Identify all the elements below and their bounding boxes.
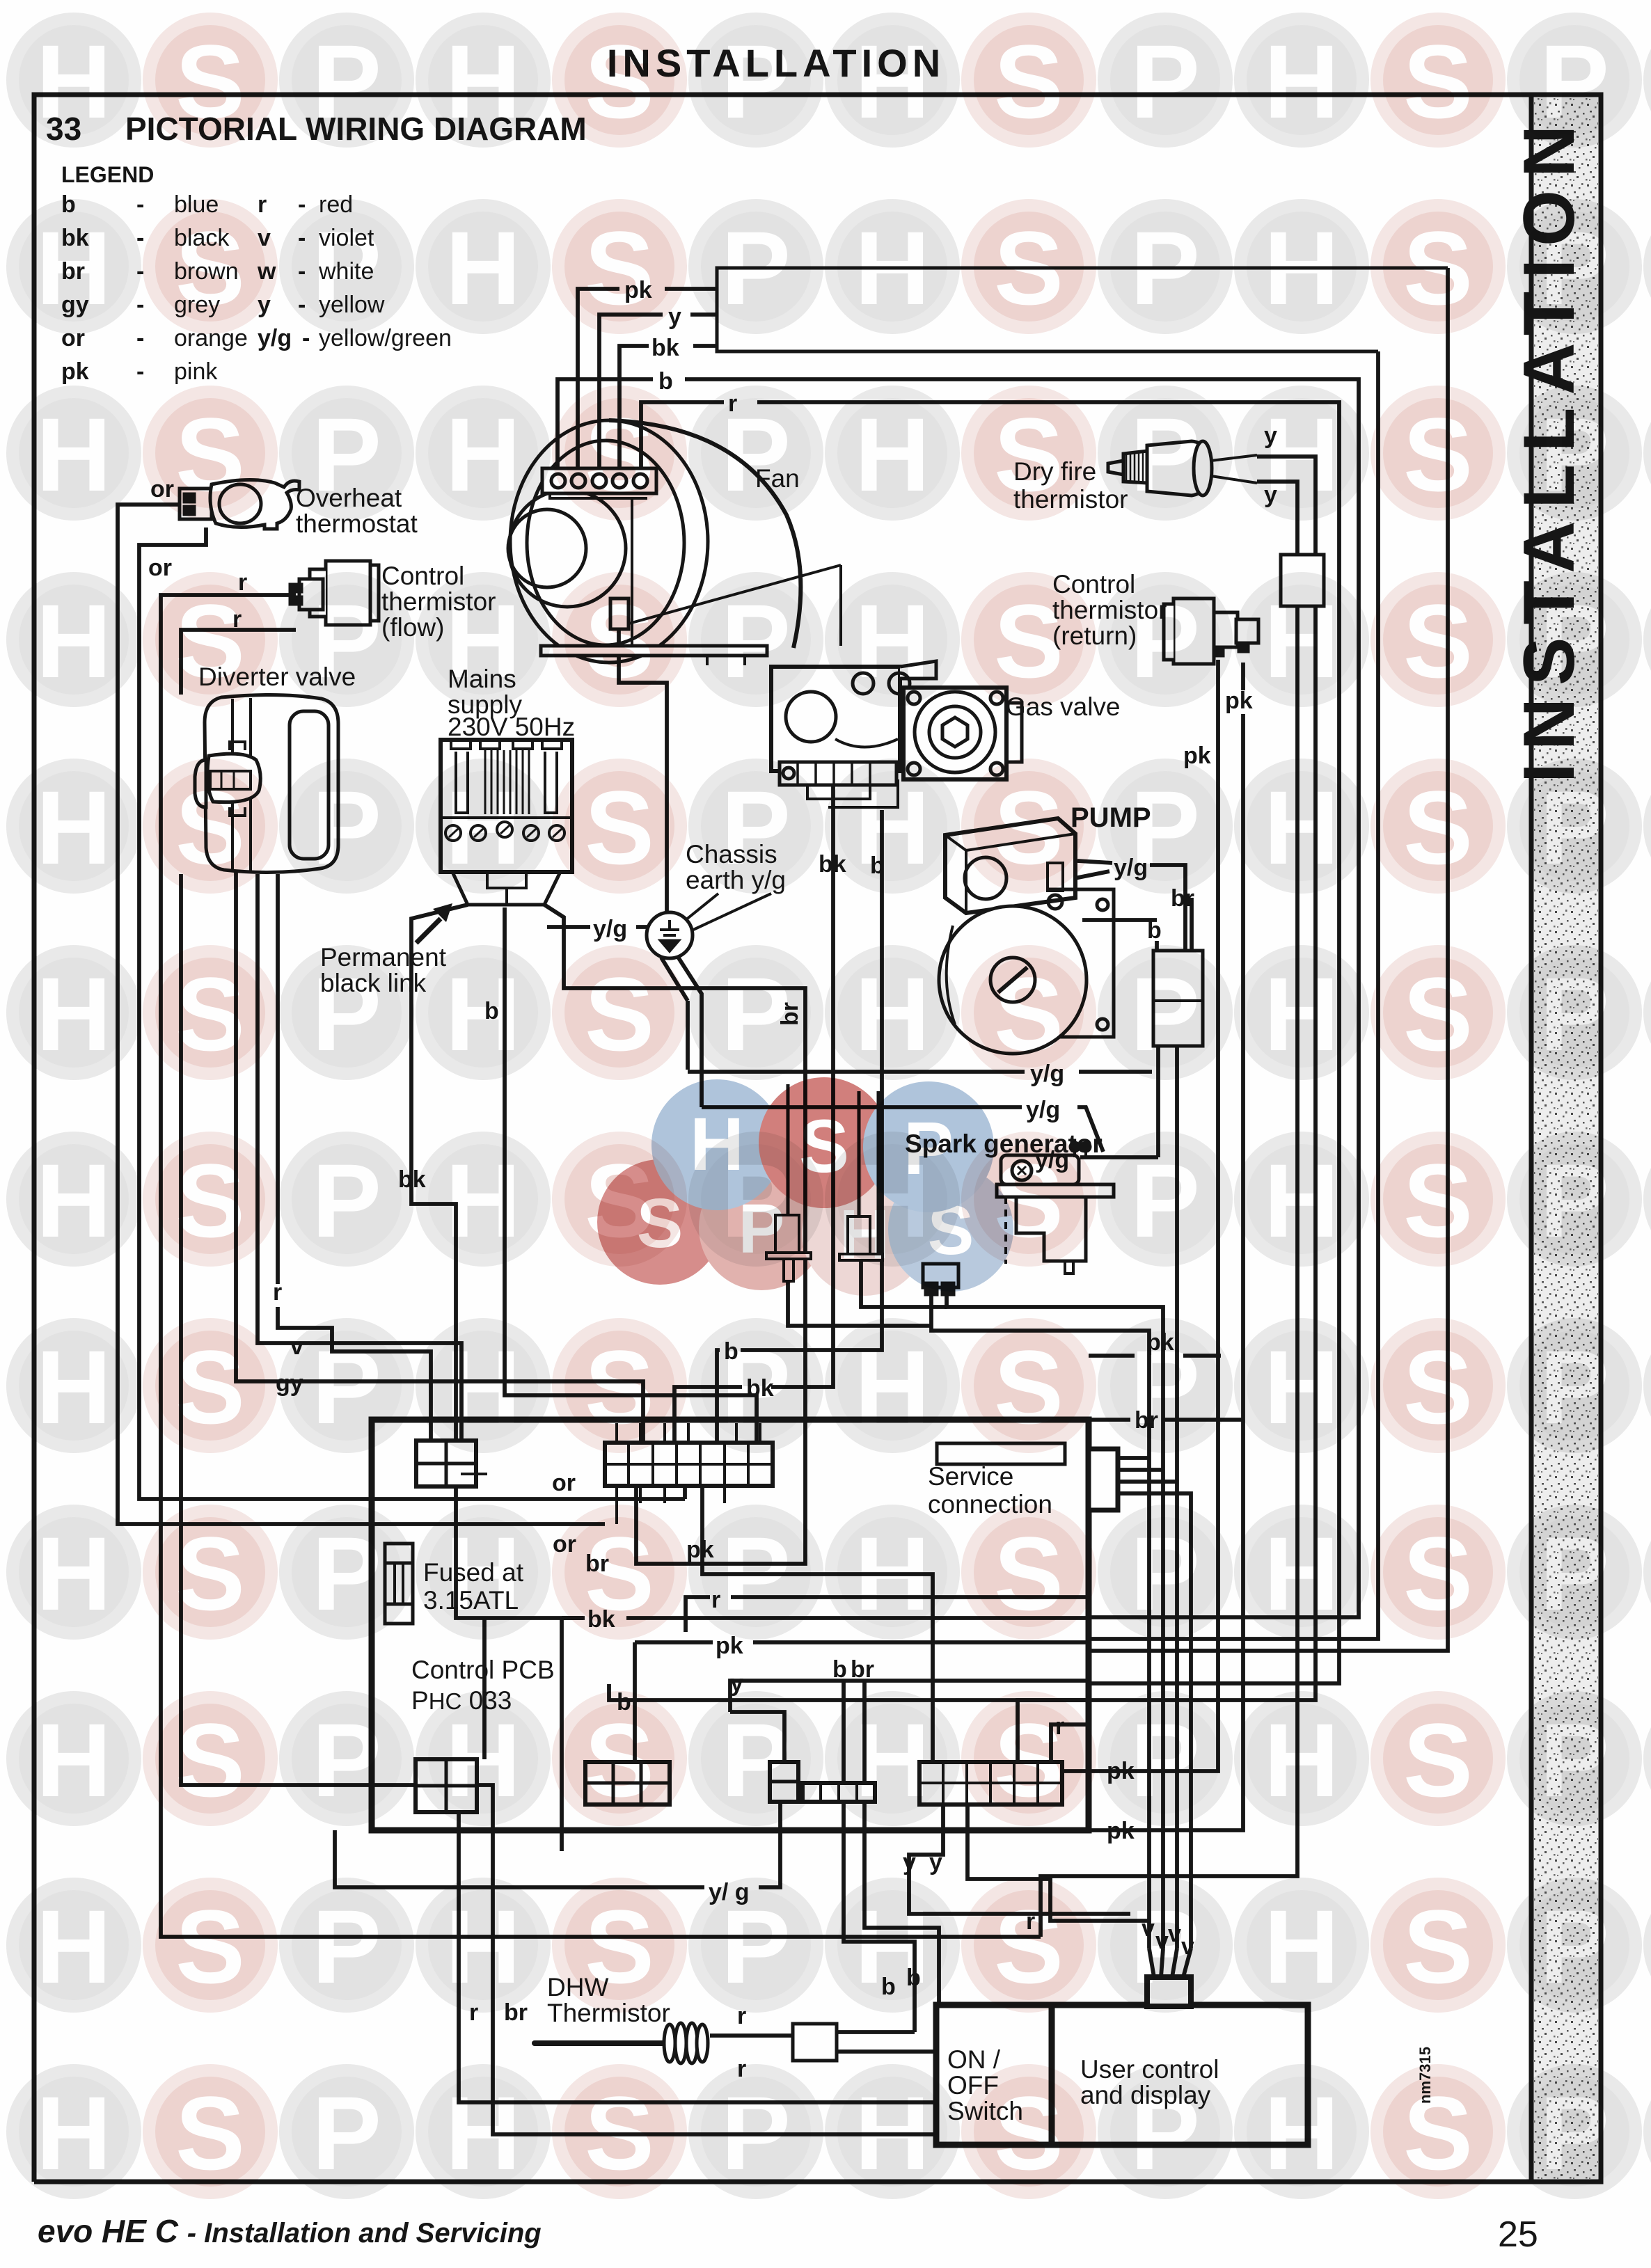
svg-text:S: S xyxy=(994,1515,1064,1632)
pump xyxy=(939,818,1114,1054)
diverter valve xyxy=(195,695,338,872)
svg-text:H: H xyxy=(855,23,930,140)
svg-text:H: H xyxy=(36,1515,111,1632)
wire or overheat 2 xyxy=(139,528,685,1499)
wire v connector down long xyxy=(1175,1046,1179,1949)
svg-text:br: br xyxy=(851,1656,874,1683)
svg-text:S: S xyxy=(994,1888,1064,2005)
svg-text:P: P xyxy=(1540,1702,1609,1818)
svg-text:S: S xyxy=(1403,23,1473,140)
svg-text:H: H xyxy=(855,1329,930,1445)
svg-text:H: H xyxy=(855,769,930,886)
control thermistor (flow) xyxy=(290,561,379,625)
svg-text:S: S xyxy=(1403,769,1473,886)
svg-text:S: S xyxy=(994,1329,1064,1445)
svg-text:25: 25 xyxy=(1498,2214,1538,2255)
svg-text:P: P xyxy=(1130,1142,1200,1259)
svg-text:P: P xyxy=(721,209,791,326)
svg-text:H: H xyxy=(855,209,930,326)
svg-text:H: H xyxy=(855,396,930,513)
svg-text:H: H xyxy=(855,1515,930,1632)
wire y/g horizontal 3 xyxy=(1018,1155,1158,1159)
svg-text:H: H xyxy=(855,1888,930,2005)
svg-text:H: H xyxy=(36,23,111,140)
wire bus bottom right vertical xyxy=(1089,351,1378,1639)
fuse xyxy=(385,1544,413,1624)
sidebar INSTALLATION strip xyxy=(1531,95,1601,2182)
gas valve xyxy=(771,661,1022,807)
svg-text:S: S xyxy=(1403,209,1473,326)
wire terminal bus box xyxy=(717,268,1448,351)
wire y/g horizontal 1 xyxy=(688,1070,1152,1074)
svg-text:S: S xyxy=(585,396,654,513)
svg-text:S: S xyxy=(994,2075,1064,2191)
wire electrode 1 wire xyxy=(788,1281,931,1326)
svg-text:H: H xyxy=(36,582,111,699)
svg-text:b: b xyxy=(658,368,673,395)
wire service pins to v bundle xyxy=(1118,1458,1191,1949)
svg-text:P: P xyxy=(312,582,381,699)
connector M2 xyxy=(770,1762,798,1802)
wire v bundle into connector xyxy=(1149,1949,1191,1977)
svg-text:r: r xyxy=(273,1279,282,1306)
svg-text:S: S xyxy=(175,582,245,699)
svg-text:P: P xyxy=(1130,2075,1200,2191)
svg-text:P: P xyxy=(1130,23,1200,140)
svg-text:pk: pk xyxy=(1107,1818,1135,1844)
svg-text:S: S xyxy=(799,1104,849,1188)
svg-text:y: y xyxy=(903,1849,916,1876)
svg-text:P: P xyxy=(1130,1888,1200,2005)
svg-text:P: P xyxy=(721,1329,791,1445)
svg-text:H: H xyxy=(1264,396,1339,513)
svg-text:H: H xyxy=(1264,1329,1339,1445)
svg-text:S: S xyxy=(585,2075,654,2191)
wire br left bottom xyxy=(181,874,936,2134)
service connection xyxy=(937,1443,1065,1464)
svg-text:S: S xyxy=(175,2075,245,2191)
wire v diverter xyxy=(258,874,461,1441)
svg-text:-: - xyxy=(136,358,144,385)
wire b pump xyxy=(1082,920,1157,951)
svg-text:H: H xyxy=(36,2075,111,2191)
wire spark wire right 2 xyxy=(947,1296,1163,1949)
wire y dry fire upper xyxy=(1018,457,1316,1762)
mains supply block xyxy=(441,740,572,905)
wire r diverter xyxy=(278,874,431,1441)
svg-text:b: b xyxy=(832,1656,847,1683)
svg-text:P: P xyxy=(312,769,381,886)
wire bk branch to connector xyxy=(482,1618,487,1759)
svg-text:-: - xyxy=(136,191,144,218)
svg-text:S: S xyxy=(1403,1329,1473,1445)
svg-text:P: P xyxy=(1130,769,1200,886)
svg-text:S: S xyxy=(175,1702,245,1818)
svg-text:P: P xyxy=(1540,209,1609,326)
wire pk fan to terminal box xyxy=(578,289,717,487)
svg-text:Control PCB: Control PCB xyxy=(411,1656,555,1684)
svg-text:S: S xyxy=(175,1888,245,2005)
svg-text:or: or xyxy=(148,555,172,581)
svg-text:P: P xyxy=(312,1888,381,2005)
svg-text:bk: bk xyxy=(651,335,679,361)
wire pk x2 down xyxy=(702,1486,933,1762)
svg-text:H: H xyxy=(36,955,111,1072)
wire b wires to DHW xyxy=(844,1802,939,2052)
svg-text:P: P xyxy=(721,1702,791,1818)
svg-text:y/g: y/g xyxy=(593,916,627,942)
svg-text:P: P xyxy=(312,23,381,140)
svg-text:H: H xyxy=(1264,2075,1339,2191)
svg-text:P: P xyxy=(721,582,791,699)
svg-text:P: P xyxy=(1540,1329,1609,1445)
svg-text:P: P xyxy=(721,396,791,513)
svg-text:S: S xyxy=(585,1515,654,1632)
svg-text:P: P xyxy=(1540,396,1609,513)
svg-text:P: P xyxy=(312,1702,381,1818)
svg-text:P: P xyxy=(721,955,791,1072)
svg-text:b: b xyxy=(1147,917,1162,944)
svg-text:P: P xyxy=(312,1329,381,1445)
svg-text:pk: pk xyxy=(1225,688,1253,714)
svg-text:H: H xyxy=(1264,1702,1339,1818)
wire r left bottom xyxy=(459,1812,936,2102)
svg-text:H: H xyxy=(1264,1515,1339,1632)
wire b mains xyxy=(505,907,757,1443)
svg-text:H: H xyxy=(445,582,521,699)
svg-text:H: H xyxy=(855,955,930,1072)
svg-text:H: H xyxy=(36,396,111,513)
svg-text:P: P xyxy=(1540,1142,1609,1259)
svg-text:H: H xyxy=(1264,955,1339,1072)
svg-text:S: S xyxy=(994,582,1064,699)
svg-text:S: S xyxy=(1403,1515,1473,1632)
svg-text:y/g: y/g xyxy=(258,325,292,351)
svg-text:P: P xyxy=(1130,1329,1200,1445)
svg-text:P: P xyxy=(312,1515,381,1632)
v connector on user control xyxy=(1147,1977,1191,2006)
svg-text:-: - xyxy=(302,325,310,351)
svg-text:LEGEND: LEGEND xyxy=(61,162,154,187)
wire y/g fan to chassis earth xyxy=(619,629,667,913)
svg-text:H: H xyxy=(1264,209,1339,326)
svg-text:S: S xyxy=(1403,396,1473,513)
svg-text:H: H xyxy=(1264,582,1339,699)
svg-text:H: H xyxy=(1264,1142,1339,1259)
svg-text:H: H xyxy=(1264,23,1339,140)
wire y dry fire lower xyxy=(1041,482,1297,1937)
wire br to connector xyxy=(1190,898,1194,951)
wire y pcb xyxy=(730,1681,1089,1762)
wire b fan long right xyxy=(558,379,1359,1617)
svg-text:P: P xyxy=(1130,1702,1200,1818)
svg-text:ON /: ON / xyxy=(947,2045,1001,2074)
ignition electrode 2 xyxy=(839,1091,883,1260)
connector M1 (PCB bottom-middle) xyxy=(585,1762,670,1805)
wire pk thermistor return 1 xyxy=(1062,660,1218,1771)
svg-text:H: H xyxy=(445,1329,521,1445)
wire pk thermistor return 2 xyxy=(1018,663,1243,1830)
svg-text:P: P xyxy=(312,1142,381,1259)
svg-text:S: S xyxy=(175,396,245,513)
svg-text:H: H xyxy=(445,955,521,1072)
wire r pcb xyxy=(686,1597,1089,1632)
wire pk pcb xyxy=(635,1642,1089,1762)
svg-text:S: S xyxy=(175,23,245,140)
svg-text:S: S xyxy=(175,955,245,1072)
wire r thermistor flow 2 xyxy=(181,630,296,695)
svg-text:pk: pk xyxy=(61,358,89,385)
wire y/g bottom xyxy=(335,1802,780,1887)
svg-text:H: H xyxy=(36,1329,111,1445)
svg-text:P: P xyxy=(1130,209,1200,326)
svg-text:H: H xyxy=(445,1142,521,1259)
svg-text:H: H xyxy=(445,2075,521,2191)
connector block b/br (right of pump) xyxy=(1153,951,1203,1046)
user control and display box xyxy=(1052,2005,1308,2145)
control PCB box xyxy=(372,1420,1089,1830)
svg-text:H: H xyxy=(36,1702,111,1818)
dry fire thermistor xyxy=(1108,441,1257,495)
wire r DHW upper xyxy=(710,2032,915,2036)
fan xyxy=(508,420,841,665)
svg-text:P: P xyxy=(1540,2075,1609,2191)
overheat thermostat xyxy=(180,479,299,529)
svg-text:P: P xyxy=(903,1106,954,1190)
control thermistor (return) xyxy=(1164,598,1258,664)
svg-text:S: S xyxy=(1403,1142,1473,1259)
wire r fan long right xyxy=(641,402,1339,1683)
svg-text:H: H xyxy=(445,769,521,886)
svg-text:P: P xyxy=(1540,955,1609,1072)
wire y/g pump pointer xyxy=(1075,861,1112,878)
wire y/g connector down xyxy=(1156,1046,1160,1157)
wire b br pcb pair xyxy=(844,1681,864,1783)
svg-text:H: H xyxy=(445,1888,521,2005)
wire bk fan to terminal box xyxy=(619,346,717,487)
svg-text:P: P xyxy=(1540,582,1609,699)
wire r thermistor flow 1 xyxy=(161,595,1041,1937)
colored HSP logo watermark xyxy=(597,1077,1013,1296)
svg-text:H: H xyxy=(1264,1888,1339,2005)
svg-text:r: r xyxy=(258,191,267,218)
spark generator xyxy=(923,1143,1114,1294)
wire r DHW lower xyxy=(837,2049,939,2054)
wire pk service xyxy=(1089,1354,1221,1358)
svg-text:S: S xyxy=(585,1888,654,2005)
ignition electrode 1 xyxy=(766,1084,811,1281)
wire y/g mains to earth xyxy=(547,925,647,929)
svg-text:-: - xyxy=(136,325,144,351)
svg-text:S: S xyxy=(994,769,1064,886)
svg-text:S: S xyxy=(585,955,654,1072)
svg-text:or: or xyxy=(552,1470,576,1496)
svg-text:H: H xyxy=(445,1515,521,1632)
svg-text:S: S xyxy=(637,1184,684,1262)
svg-text:P: P xyxy=(1540,23,1609,140)
wire bk mains xyxy=(411,905,1089,1618)
svg-text:H: H xyxy=(1264,769,1339,886)
chassis earth symbol xyxy=(647,912,693,958)
svg-text:P: P xyxy=(1540,1515,1609,1632)
svg-text:P: P xyxy=(1130,955,1200,1072)
svg-text:S: S xyxy=(585,1702,654,1818)
wire gy diverter xyxy=(236,808,643,1443)
svg-text:H: H xyxy=(445,209,521,326)
svg-text:P: P xyxy=(1540,769,1609,886)
wire b pcb xyxy=(609,1684,1089,1700)
svg-text:S: S xyxy=(175,769,245,886)
wire spark wire right 1 xyxy=(931,1296,1149,1949)
svg-text:pink: pink xyxy=(174,358,218,385)
svg-text:S: S xyxy=(175,1329,245,1445)
wire b gas valve xyxy=(717,810,882,1443)
svg-text:H: H xyxy=(445,23,521,140)
svg-text:S: S xyxy=(994,1702,1064,1818)
svg-text:H: H xyxy=(855,1702,930,1818)
svg-text:Service: Service xyxy=(928,1462,1013,1491)
svg-text:H: H xyxy=(855,2075,930,2191)
svg-text:H: H xyxy=(36,1142,111,1259)
svg-text:S: S xyxy=(585,23,654,140)
svg-text:H: H xyxy=(36,1888,111,2005)
svg-text:P: P xyxy=(1130,582,1200,699)
svg-text:H: H xyxy=(445,396,521,513)
svg-text:S: S xyxy=(175,1515,245,1632)
svg-text:S: S xyxy=(994,955,1064,1072)
connector X1 (PCB top-left) xyxy=(416,1441,487,1486)
svg-text:y/g: y/g xyxy=(1026,1097,1060,1123)
wire bus top right vertical xyxy=(1089,268,1448,1651)
connector L1 (PCB bottom-left) xyxy=(416,1759,477,1812)
svg-text:P: P xyxy=(721,1888,791,2005)
wire r to R1 xyxy=(1051,1724,1089,1762)
svg-text:S: S xyxy=(175,209,245,326)
svg-text:P: P xyxy=(721,2075,791,2191)
svg-text:P: P xyxy=(721,1515,791,1632)
svg-text:S: S xyxy=(1403,2075,1473,2191)
svg-text:-: - xyxy=(136,292,144,318)
ON/OFF switch box xyxy=(936,2005,1052,2145)
wire y/g horizontal 2 xyxy=(702,1107,1103,1152)
svg-text:P: P xyxy=(721,769,791,886)
wire bk pcb xyxy=(562,1618,585,1851)
svg-text:H: H xyxy=(445,1702,521,1818)
svg-text:H: H xyxy=(855,582,930,699)
wire y fan to terminal box xyxy=(599,315,717,487)
connector M3 (4-pin) xyxy=(803,1783,875,1802)
connector inline (dry fire y wire) xyxy=(1281,555,1324,606)
svg-text:P: P xyxy=(312,209,381,326)
wire electrode 2 wire xyxy=(861,1262,947,1307)
svg-text:S: S xyxy=(1403,582,1473,699)
svg-text:S: S xyxy=(1403,1702,1473,1818)
svg-text:S: S xyxy=(1403,955,1473,1072)
legend block xyxy=(61,162,452,385)
svg-text:S: S xyxy=(1403,1888,1473,2005)
wire y/g earth down pair xyxy=(661,955,702,1107)
svg-text:P: P xyxy=(1540,1888,1609,2005)
svg-text:evo HE C - Installation and Se: evo HE C - Installation and Servicing xyxy=(38,2213,542,2249)
svg-text:P: P xyxy=(312,396,381,513)
svg-text:P: P xyxy=(312,2075,381,2191)
svg-text:H: H xyxy=(36,209,111,326)
svg-text:S: S xyxy=(585,209,654,326)
svg-text:S: S xyxy=(994,23,1064,140)
svg-text:H: H xyxy=(36,769,111,886)
wire bk gas valve xyxy=(674,786,833,1443)
svg-text:230V 50Hz: 230V 50Hz xyxy=(448,713,575,741)
wire br service xyxy=(1089,1418,1245,1422)
svg-text:P: P xyxy=(312,955,381,1072)
svg-text:S: S xyxy=(585,582,654,699)
connector X2 (PCB top strip) xyxy=(605,1423,773,1524)
DHW thermistor xyxy=(535,2023,837,2063)
connector R1 (PCB bottom-right) xyxy=(919,1762,1062,1805)
svg-text:S: S xyxy=(175,1142,245,1259)
wire or overheat 1 xyxy=(118,505,605,1524)
svg-text:S: S xyxy=(994,396,1064,513)
svg-text:y: y xyxy=(929,1849,942,1876)
svg-text:P: P xyxy=(721,23,791,140)
svg-text:H: H xyxy=(690,1102,744,1186)
svg-text:P: P xyxy=(1130,1515,1200,1632)
wire y pair below R1 xyxy=(909,1805,1148,1921)
svg-text:S: S xyxy=(585,769,654,886)
svg-text:S: S xyxy=(585,1329,654,1445)
svg-text:H: H xyxy=(839,1196,890,1274)
svg-text:S: S xyxy=(994,209,1064,326)
svg-text:P: P xyxy=(1130,396,1200,513)
wire br mains xyxy=(544,905,805,1564)
wire y/g pump to connector xyxy=(1150,865,1185,951)
